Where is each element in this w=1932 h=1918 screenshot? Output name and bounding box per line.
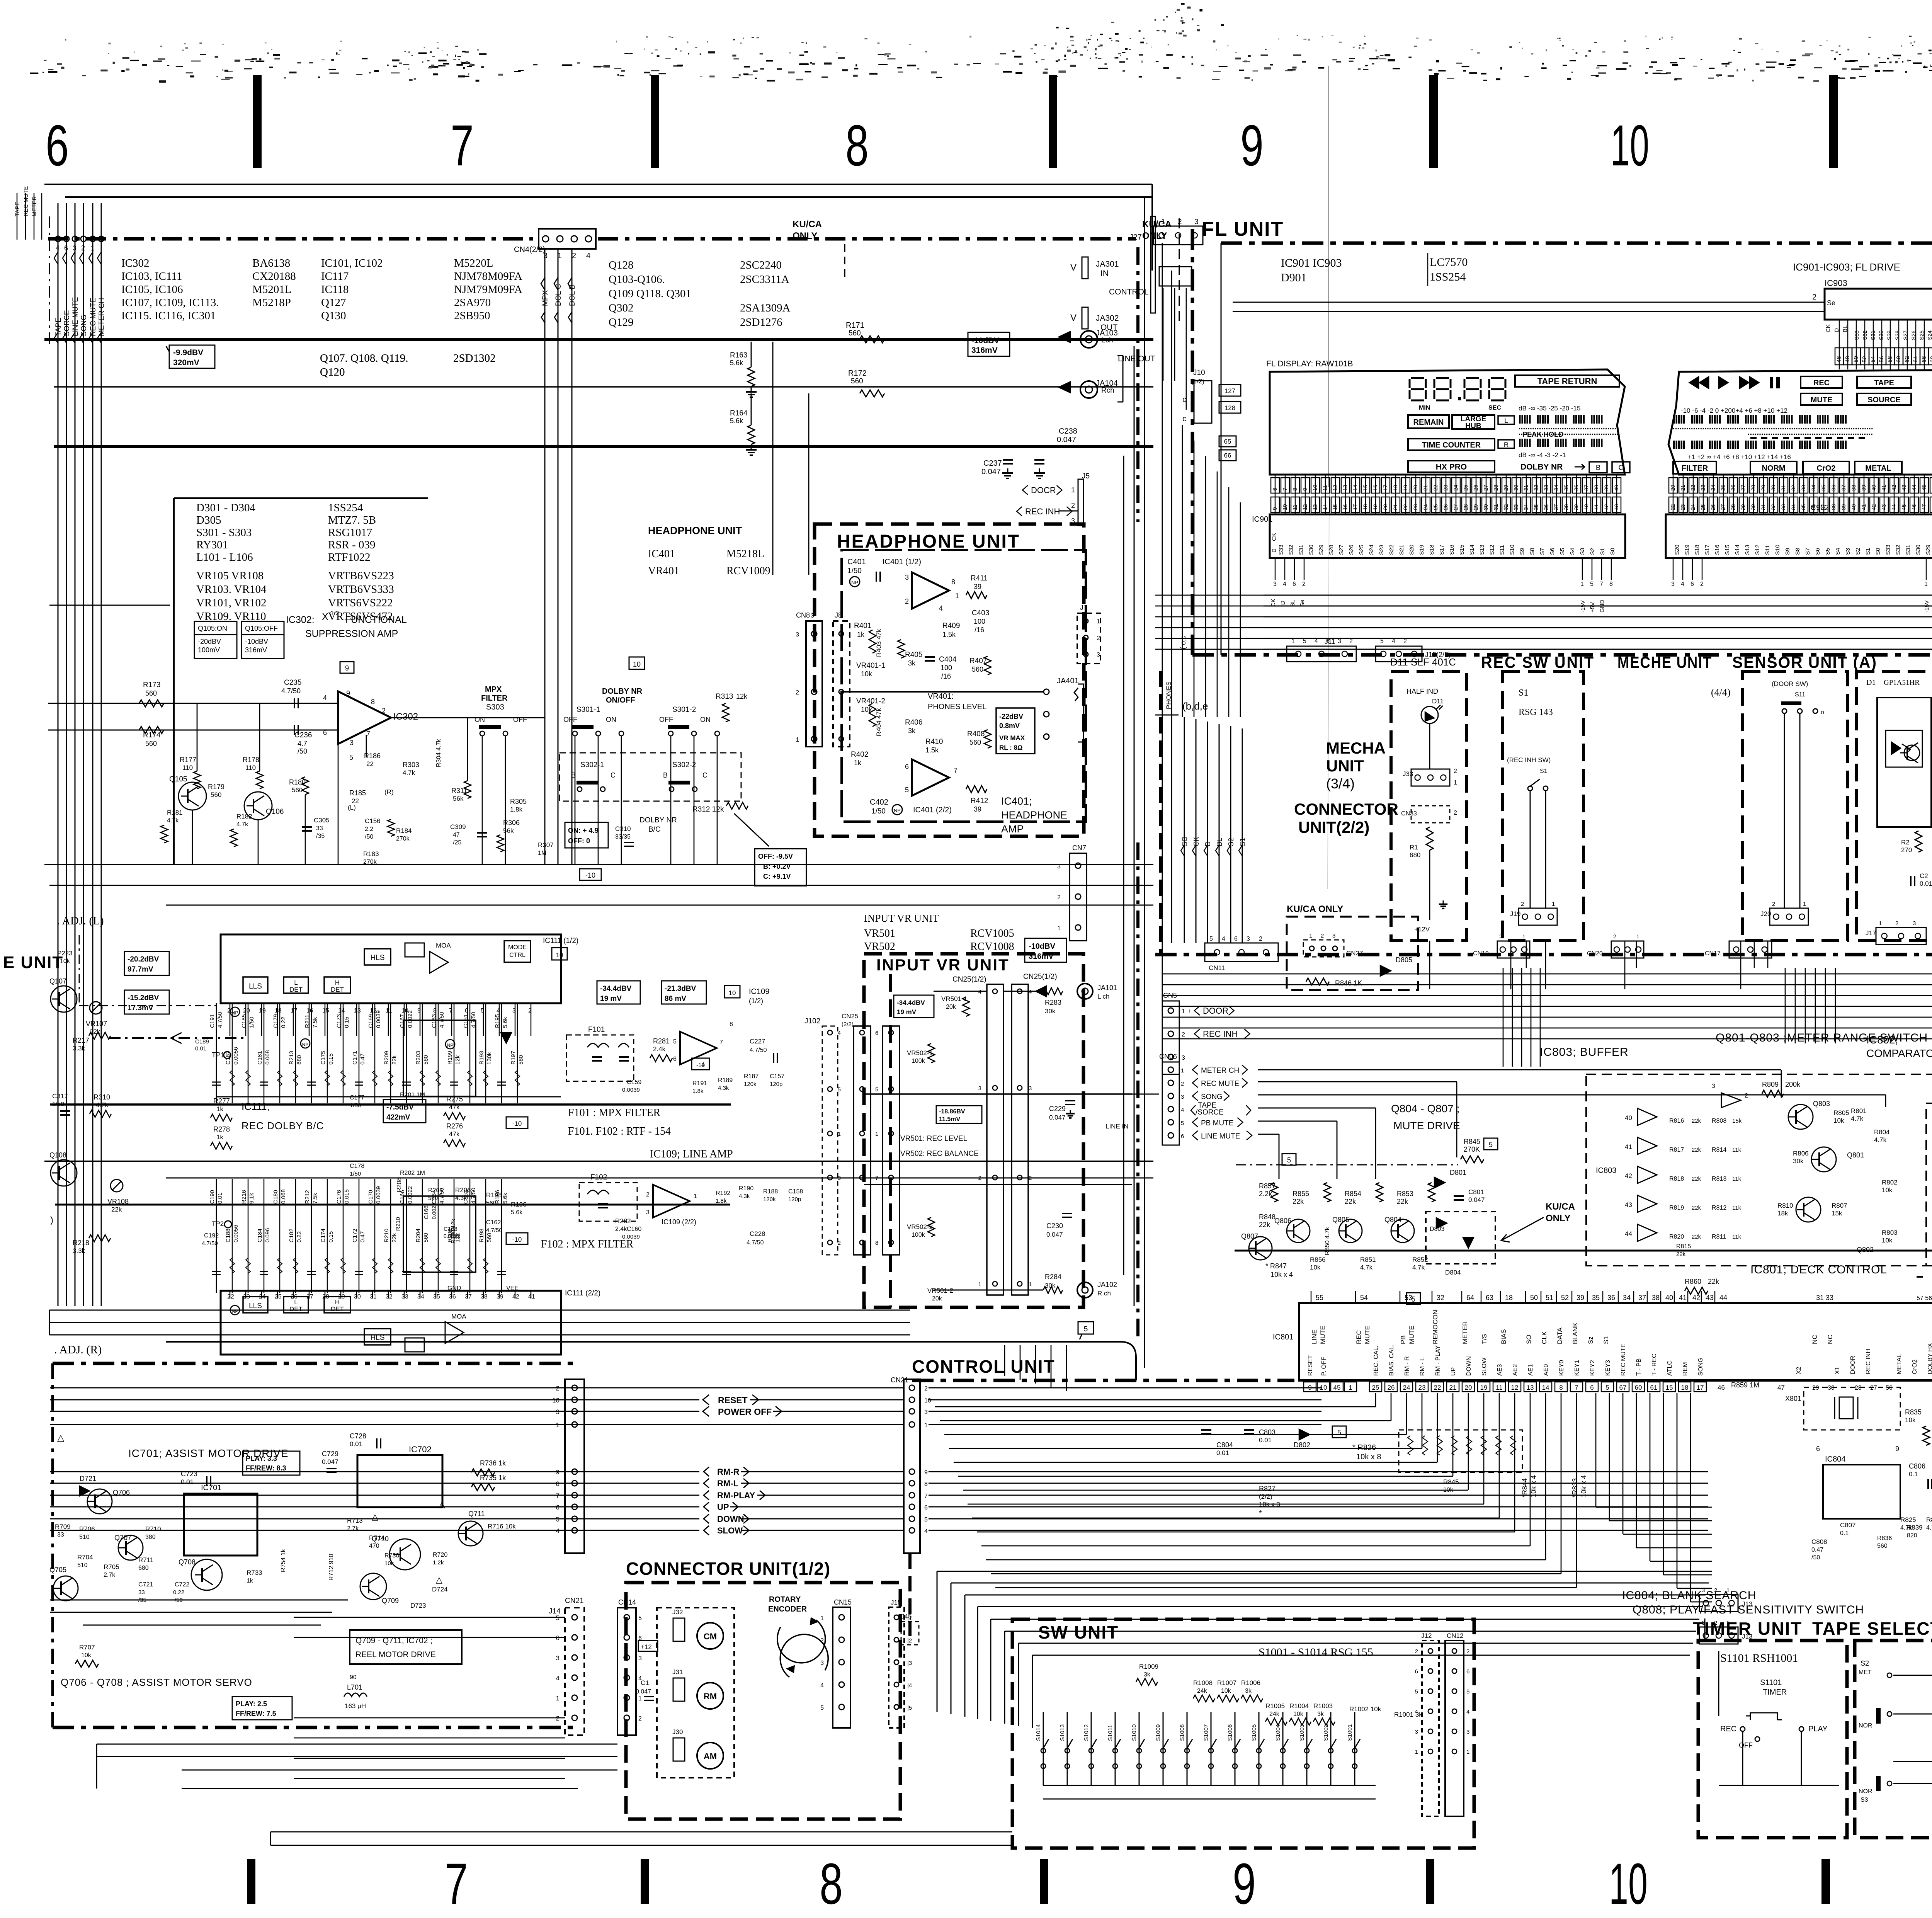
svg-text:(REC INH SW): (REC INH SW) (1507, 756, 1551, 764)
svg-text:C174: C174 (320, 1229, 327, 1242)
svg-text:2: 2 (528, 1008, 532, 1014)
svg-text:-10: -10 (696, 1062, 705, 1069)
svg-text:97.7mV: 97.7mV (128, 965, 153, 973)
svg-text:3k: 3k (1245, 1688, 1252, 1694)
svg-text:2: 2 (1259, 936, 1262, 942)
svg-text:-20.2dBV: -20.2dBV (128, 955, 159, 963)
svg-text:S28: S28 (1328, 545, 1335, 555)
svg-text:9: 9 (1240, 113, 1264, 178)
FL unit parts list (1281, 253, 1468, 286)
svg-text:6: 6 (323, 729, 327, 737)
svg-text:DOL B: DOL B (568, 284, 577, 306)
svg-text:38: 38 (1652, 1294, 1660, 1302)
bus line 3 (54, 445, 1153, 448)
svg-text:14: 14 (338, 1008, 345, 1014)
svg-text:R853: R853 (1397, 1190, 1413, 1198)
svg-text:TAPE: TAPE (14, 202, 21, 216)
svg-text:1SS254: 1SS254 (328, 502, 363, 514)
svg-text:42: 42 (1603, 504, 1609, 510)
svg-text:S2: S2 (1861, 1659, 1869, 1667)
svg-text:41: 41 (528, 1293, 535, 1300)
svg-text:R164: R164 (730, 409, 748, 417)
svg-text:37: 37 (465, 1293, 472, 1300)
svg-text:S9: S9 (1519, 548, 1526, 555)
svg-text:5: 5 (1209, 936, 1213, 942)
svg-text:6: 6 (46, 113, 69, 178)
svg-text:CN7: CN7 (1072, 844, 1086, 852)
level callout -9.9dBV (166, 345, 215, 368)
SW unit (1012, 1619, 1474, 1848)
svg-text:R178: R178 (243, 756, 259, 764)
svg-text:1.8k: 1.8k (692, 1088, 704, 1094)
svg-text:1: 1 (1071, 486, 1075, 494)
svg-text:R817: R817 (1669, 1147, 1684, 1153)
svg-text:86 mV: 86 mV (665, 995, 686, 1003)
svg-text:4: 4 (323, 694, 327, 702)
svg-text:S33: S33 (1854, 330, 1860, 340)
svg-text:S6: S6 (1549, 548, 1556, 555)
svg-text:36: 36 (1830, 485, 1837, 491)
svg-text:NOR: NOR (1859, 1722, 1872, 1729)
svg-text:5: 5 (924, 1516, 928, 1523)
svg-text:R182: R182 (236, 813, 252, 820)
headphone unit parts list (648, 525, 770, 577)
svg-text:S1005: S1005 (1251, 1724, 1257, 1741)
svg-text:1k: 1k (216, 1105, 223, 1113)
svg-text:1SS254: 1SS254 (1430, 271, 1466, 283)
svg-text:X801: X801 (1785, 1395, 1801, 1402)
svg-text:R818: R818 (1669, 1176, 1684, 1182)
svg-text:S1007: S1007 (1203, 1724, 1209, 1741)
rec indicator (1801, 376, 1842, 388)
svg-text:4.7/50: 4.7/50 (486, 1227, 502, 1234)
svg-text:5: 5 (349, 754, 353, 761)
svg-text:10: 10 (1611, 113, 1649, 178)
svg-text:27: 27 (1740, 485, 1746, 491)
power supply assist motor circuit (49, 1432, 516, 1720)
svg-text:3k: 3k (908, 727, 916, 735)
svg-text:47k: 47k (449, 1130, 460, 1138)
svg-text:200k: 200k (1785, 1081, 1801, 1088)
svg-text:14: 14 (1322, 504, 1328, 510)
svg-text:45: 45 (1921, 485, 1927, 491)
svg-text:R707: R707 (79, 1644, 95, 1651)
svg-text:19: 19 (1372, 504, 1378, 510)
svg-text:SONG: SONG (1201, 1093, 1223, 1101)
svg-text:L ch: L ch (1097, 993, 1110, 1000)
svg-text:NP: NP (851, 580, 858, 585)
svg-text:R277: R277 (213, 1097, 230, 1105)
svg-text:DOWN: DOWN (1466, 1356, 1472, 1376)
svg-text:REEL MOTOR DRIVE: REEL MOTOR DRIVE (355, 1650, 436, 1659)
svg-text:36: 36 (1573, 485, 1579, 491)
svg-text:1: 1 (1349, 1384, 1352, 1391)
svg-text:0.047: 0.047 (981, 468, 1001, 476)
svg-text:4.7k: 4.7k (1412, 1264, 1425, 1271)
svg-text:S13: S13 (1744, 545, 1751, 555)
svg-text:R406: R406 (905, 718, 922, 727)
svg-text:R198: R198 (478, 1229, 485, 1242)
svg-text:MODE: MODE (508, 944, 527, 951)
svg-text:BL: BL (1216, 838, 1223, 846)
svg-text:18: 18 (275, 1008, 282, 1014)
svg-text:B: B (571, 771, 576, 779)
F101 mpx filter line amp (566, 1021, 784, 1094)
parts list D301 group (196, 502, 394, 623)
svg-text:1/50: 1/50 (52, 1101, 64, 1108)
svg-text:J17: J17 (1866, 929, 1876, 937)
amp bottom boundary (166, 1342, 1136, 1380)
svg-text:C161: C161 (463, 1014, 469, 1028)
svg-text:RSR - 039: RSR - 039 (328, 539, 375, 551)
svg-text:560: 560 (969, 739, 981, 746)
svg-text:R303: R303 (403, 761, 419, 769)
svg-text:S28: S28 (1894, 330, 1900, 340)
bargraph L (1519, 415, 1603, 424)
svg-text:3: 3 (1182, 1055, 1185, 1061)
boxed ref -10a (580, 869, 601, 880)
svg-text:2: 2 (1403, 638, 1407, 645)
svg-text:42: 42 (1891, 485, 1897, 491)
svg-text:S32: S32 (1895, 545, 1901, 555)
svg-text:3: 3 (1702, 1587, 1705, 1594)
svg-text:ONLY: ONLY (1546, 1213, 1570, 1224)
svg-text:METER: METER (31, 196, 38, 216)
svg-text:C803: C803 (1259, 1428, 1276, 1436)
svg-text:38: 38 (1830, 504, 1837, 510)
svg-text:21: 21 (1680, 485, 1686, 491)
svg-text:R802: R802 (1882, 1179, 1898, 1186)
svg-text:R313: R313 (716, 693, 733, 701)
svg-text:S302-2: S302-2 (672, 761, 696, 769)
svg-text:△: △ (439, 1499, 445, 1509)
svg-text:25: 25 (1720, 485, 1726, 491)
svg-text:44: 44 (1719, 1294, 1727, 1302)
svg-text:CONTROL: CONTROL (1109, 288, 1149, 296)
svg-text:67: 67 (1619, 1384, 1627, 1391)
svg-text:5: 5 (1590, 581, 1594, 587)
svg-text:6: 6 (1690, 581, 1694, 587)
svg-text:L: L (294, 1299, 298, 1306)
svg-text:S1010: S1010 (1131, 1724, 1138, 1741)
svg-text:270K: 270K (1464, 1145, 1480, 1153)
svg-text:L: L (1504, 417, 1508, 424)
svg-text:20k: 20k (946, 1004, 956, 1010)
svg-text:+12V: +12V (1414, 926, 1430, 933)
ku/ca only note left (793, 219, 845, 279)
IC903 pin comb (1825, 320, 1932, 369)
svg-text:-15.2dBV: -15.2dBV (128, 994, 159, 1002)
svg-text:61: 61 (1650, 1384, 1658, 1391)
svg-text:3: 3 (1466, 1729, 1469, 1735)
svg-text:5.6k: 5.6k (730, 417, 743, 425)
svg-text:C1: C1 (641, 1679, 649, 1687)
svg-text:3: 3 (1415, 1729, 1418, 1735)
svg-text:1: 1 (90, 244, 94, 252)
svg-text:32: 32 (1503, 504, 1509, 510)
svg-text:CN15: CN15 (834, 1598, 852, 1606)
svg-text:1M: 1M (538, 850, 546, 856)
svg-text:R836: R836 (1877, 1535, 1892, 1542)
svg-text:R203: R203 (415, 1051, 422, 1065)
boxed ref 5c (1406, 1293, 1420, 1304)
svg-text:IC901 IC903: IC901 IC903 (1281, 257, 1342, 269)
svg-text:0.0039: 0.0039 (622, 1087, 640, 1093)
ic109 label (749, 987, 769, 1005)
svg-text:D724: D724 (432, 1586, 448, 1593)
svg-text:35: 35 (1820, 485, 1827, 491)
svg-text:35: 35 (1592, 1294, 1600, 1302)
bargraph B R (1673, 441, 1847, 449)
svg-text:470: 470 (369, 1543, 379, 1549)
svg-text:120p: 120p (788, 1196, 801, 1203)
svg-text:5: 5 (673, 1038, 677, 1045)
svg-text:9: 9 (556, 1469, 560, 1476)
svg-text:2: 2 (978, 1175, 981, 1181)
svg-text:13: 13 (1527, 1384, 1534, 1391)
svg-text:23: 23 (1412, 504, 1418, 510)
svg-text:C310: C310 (615, 825, 631, 832)
svg-text:(R): (R) (384, 788, 394, 796)
svg-text:15: 15 (1362, 485, 1368, 491)
svg-text:22k: 22k (391, 1233, 398, 1242)
svg-text:R713: R713 (347, 1517, 363, 1524)
svg-text:2: 2 (1097, 635, 1100, 642)
svg-text:10k: 10k (1293, 1711, 1304, 1717)
svg-text:1: 1 (1924, 581, 1928, 587)
svg-text:D805: D805 (1396, 956, 1412, 964)
control-sw staircase wires (937, 1571, 1712, 1728)
svg-text:J15: J15 (891, 1599, 901, 1606)
bargraph B L (1673, 415, 1847, 424)
svg-text:R736 1k: R736 1k (480, 1459, 506, 1467)
svg-text:-18.86BV: -18.86BV (939, 1108, 965, 1115)
svg-text:6: 6 (1590, 1384, 1594, 1391)
svg-text:8: 8 (730, 1021, 733, 1028)
svg-text:36: 36 (1810, 504, 1816, 510)
svg-text:3: 3 (1273, 581, 1277, 587)
svg-text:IC109 (2/2): IC109 (2/2) (662, 1218, 696, 1226)
svg-text:R171: R171 (846, 321, 864, 330)
svg-text:R712 910: R712 910 (328, 1554, 335, 1581)
chain left border mid (79, 935, 216, 1006)
svg-text:R196: R196 (511, 1201, 527, 1208)
svg-text:17: 17 (1352, 504, 1358, 510)
svg-text:+12: +12 (641, 1643, 652, 1651)
svg-text:R704: R704 (77, 1554, 93, 1561)
svg-text:1: 1 (1182, 1008, 1185, 1015)
svg-text:37: 37 (1840, 485, 1847, 491)
svg-text:63: 63 (1486, 1294, 1493, 1302)
svg-text:3k: 3k (1144, 1671, 1151, 1678)
svg-text:C229: C229 (1049, 1105, 1066, 1113)
svg-text:Q804: Q804 (1384, 1216, 1401, 1224)
svg-text:4.7k: 4.7k (167, 817, 179, 824)
svg-text:2: 2 (572, 252, 576, 260)
svg-text:DET: DET (289, 986, 303, 993)
norm indicator (1750, 461, 1797, 474)
svg-text:S26: S26 (1348, 545, 1355, 555)
svg-text:S24: S24 (1368, 545, 1375, 555)
svg-text:0.01: 0.01 (1259, 1436, 1272, 1444)
svg-text:Q806: Q806 (1274, 1217, 1291, 1225)
svg-text:KEY2: KEY2 (1589, 1360, 1596, 1376)
svg-text:0.22: 0.22 (280, 1017, 287, 1028)
svg-text:C804: C804 (1216, 1441, 1233, 1449)
svg-text:3: 3 (73, 244, 77, 252)
tape return indicator (1515, 375, 1619, 387)
svg-text:11: 11 (1292, 504, 1298, 510)
svg-text:IC118: IC118 (321, 283, 349, 296)
svg-text:-10 -6 -4 -2 0: -10 -6 -4 -2 0 +200+4 +6 +8 +10 +12 (1681, 407, 1787, 414)
svg-text:36: 36 (1607, 1294, 1615, 1302)
svg-text:20: 20 (1670, 485, 1676, 491)
svg-text:6: 6 (1816, 1445, 1820, 1453)
svg-text:25: 25 (1432, 504, 1439, 510)
svg-text:JA103: JA103 (1096, 329, 1118, 337)
svg-text:0.047: 0.047 (1046, 1231, 1063, 1238)
svg-text:R282: R282 (615, 1217, 631, 1225)
svg-text:C184: C184 (257, 1229, 263, 1242)
mid rule D (44, 1161, 1153, 1162)
svg-text:2SA970: 2SA970 (454, 296, 491, 309)
svg-text:560: 560 (423, 1055, 429, 1065)
svg-text:ON/OFF: ON/OFF (606, 696, 635, 705)
svg-text:5: 5 (905, 786, 909, 794)
svg-text:R851: R851 (1360, 1256, 1376, 1263)
svg-text:8: 8 (951, 578, 955, 586)
peak hold dot rows B (1673, 428, 1872, 435)
svg-text:S10: S10 (1509, 545, 1515, 555)
svg-text:26: 26 (1710, 504, 1716, 510)
svg-text:23: 23 (1442, 485, 1449, 491)
svg-text:18: 18 (1392, 485, 1398, 491)
svg-text:RCV1005: RCV1005 (970, 928, 1014, 939)
svg-text:S31: S31 (1905, 545, 1912, 555)
svg-text:40: 40 (1583, 504, 1589, 510)
svg-text:1: 1 (1580, 581, 1584, 587)
svg-text:S1: S1 (1519, 688, 1528, 698)
svg-text:10k: 10k (1882, 1186, 1893, 1194)
svg-text:2: 2 (556, 1715, 560, 1722)
connector J10(1/2) (1182, 369, 1241, 461)
dolby B box (1589, 462, 1607, 473)
svg-text:1.2k: 1.2k (433, 1559, 444, 1566)
svg-text:ONLY: ONLY (793, 231, 817, 241)
svg-text:KU/CA ONLY: KU/CA ONLY (1287, 904, 1343, 914)
svg-text:4: 4 (1283, 581, 1286, 587)
svg-text:S32: S32 (1288, 545, 1294, 555)
svg-text:16: 16 (1342, 504, 1348, 510)
mid rule C (166, 905, 1153, 906)
svg-text:S6: S6 (1815, 548, 1821, 555)
svg-text:NC: NC (1811, 1334, 1818, 1344)
IC901 bottom pins (1270, 558, 1613, 613)
svg-text:22: 22 (1402, 504, 1408, 510)
svg-text:J33: J33 (1403, 770, 1413, 778)
svg-text:-10dBV: -10dBV (1029, 942, 1056, 951)
svg-text:C166: C166 (423, 1205, 430, 1219)
metal indicator (1855, 461, 1902, 474)
svg-text:4: 4 (1466, 1709, 1469, 1715)
svg-text:5: 5 (1181, 1120, 1184, 1127)
svg-text:30: 30 (354, 1293, 361, 1300)
svg-text:4: 4 (1681, 581, 1684, 587)
connector J7 (1077, 604, 1100, 664)
svg-text:6: 6 (875, 1030, 878, 1036)
svg-text:DET: DET (331, 1305, 344, 1313)
svg-text:HALF IND: HALF IND (1406, 688, 1438, 695)
svg-text:5: 5 (1415, 1688, 1418, 1695)
svg-text:8: 8 (1559, 1384, 1563, 1391)
svg-text:4: 4 (924, 1528, 928, 1535)
svg-text:LINE MUTE: LINE MUTE (71, 297, 80, 336)
svg-text:-7.5dBV: -7.5dBV (386, 1103, 414, 1111)
L channel box (1498, 416, 1514, 424)
svg-text:/16: /16 (975, 626, 984, 634)
svg-text:0.01: 0.01 (195, 1045, 206, 1052)
svg-text:VR502-1: VR502-1 (907, 1049, 933, 1057)
svg-text:55: 55 (1316, 1294, 1323, 1302)
mpx filter dolby nr switches (474, 685, 769, 848)
svg-text:S27: S27 (1338, 545, 1345, 555)
svg-text:43: 43 (1901, 485, 1907, 491)
svg-text:(b,d,e: (b,d,e (1182, 700, 1208, 712)
svg-text:SORCE: SORCE (63, 310, 71, 336)
parts list IC302 group (121, 257, 791, 328)
transport indicator icons (1689, 377, 1780, 388)
ku/ca only note top (1142, 218, 1179, 325)
svg-text:24: 24 (1422, 504, 1429, 510)
resistor banks R844 R833 (1521, 1475, 1588, 1498)
svg-text:4.7k: 4.7k (1900, 1525, 1912, 1531)
svg-text:R854: R854 (1345, 1190, 1361, 1198)
connector CN4(2/2) (514, 229, 596, 260)
svg-text:NP: NP (232, 1309, 238, 1314)
svg-text:Sz: Sz (1587, 1336, 1594, 1344)
svg-text:22k: 22k (1692, 1176, 1701, 1182)
svg-text:MUTE: MUTE (1319, 1326, 1327, 1344)
svg-text:18: 18 (1505, 1294, 1513, 1302)
svg-text:5: 5 (1287, 1156, 1291, 1164)
blank search labels (1622, 1589, 1864, 1616)
svg-text:S8: S8 (1529, 548, 1536, 555)
svg-text:60: 60 (1635, 1384, 1642, 1391)
svg-text:22k: 22k (1293, 1198, 1304, 1205)
svg-text:SEC: SEC (1488, 405, 1501, 411)
svg-text:LINE IN: LINE IN (1105, 1123, 1129, 1130)
svg-text:R210: R210 (383, 1229, 390, 1242)
svg-text:0.01: 0.01 (350, 1440, 362, 1448)
svg-text:X: X (322, 611, 328, 622)
svg-text:IC302:: IC302: (286, 614, 315, 625)
svg-text:21: 21 (1422, 485, 1429, 491)
svg-text:C179: C179 (272, 1014, 279, 1028)
svg-text:11k: 11k (1732, 1147, 1742, 1153)
svg-text:1.8k: 1.8k (510, 806, 523, 813)
connector unit 1/2 (617, 1559, 912, 1819)
svg-text:5.6k: 5.6k (502, 1017, 509, 1028)
svg-text:34: 34 (1553, 485, 1559, 491)
svg-text:35: 35 (1800, 504, 1806, 510)
svg-text:R1007: R1007 (1217, 1679, 1236, 1687)
svg-text:39: 39 (1573, 504, 1579, 510)
svg-text:HEADPHONE UNIT: HEADPHONE UNIT (648, 525, 742, 536)
svg-text:C185: C185 (241, 1014, 247, 1028)
svg-text:0.0039: 0.0039 (375, 1186, 382, 1204)
svg-text:5.6k: 5.6k (502, 1193, 509, 1204)
svg-text:REC MUTE: REC MUTE (1620, 1343, 1627, 1376)
